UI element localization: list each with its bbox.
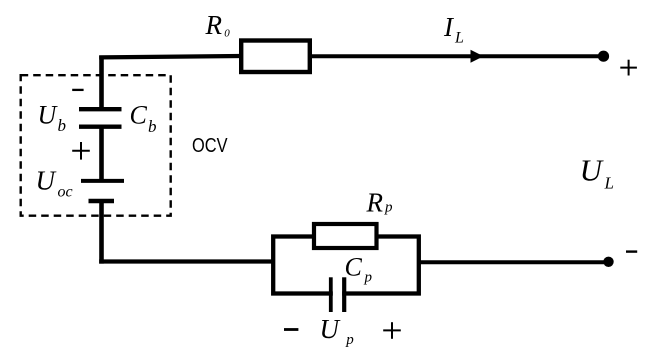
svg-text:p: p <box>345 332 354 348</box>
capacitor Cp <box>331 277 344 312</box>
svg-text:p: p <box>384 200 393 216</box>
svg-text:I: I <box>443 12 455 42</box>
label Uoc <box>36 166 73 201</box>
label IL <box>443 12 464 46</box>
label Up <box>320 314 355 348</box>
battery Uoc (short negative plate) <box>89 199 115 203</box>
label Cb <box>130 101 157 137</box>
label − above capacitor Cb <box>72 89 83 91</box>
label Rp <box>366 188 394 218</box>
label + at positive load terminal <box>620 60 637 76</box>
svg-text:OCV: OCV <box>192 135 228 157</box>
svg-text:U: U <box>36 166 57 196</box>
wire: riser from Cb top plate to top rail <box>99 56 104 111</box>
svg-text:R: R <box>366 188 384 218</box>
label − at negative load terminal <box>626 250 637 252</box>
wire: top rail from node to R0 left terminal <box>99 56 241 57</box>
svg-text:C: C <box>345 253 363 282</box>
svg-text:L: L <box>454 30 464 47</box>
svg-text:0: 0 <box>224 28 230 40</box>
label + between Cb and battery <box>72 142 90 160</box>
node: positive load terminal <box>598 51 609 62</box>
wire: RC block to negative load terminal <box>419 260 605 264</box>
resistor R0 <box>241 41 310 73</box>
label − at Up left <box>284 328 298 331</box>
wire: R0 right terminal to positive load terminal <box>312 54 603 58</box>
svg-text:b: b <box>148 117 157 136</box>
node: negative load terminal <box>603 257 613 267</box>
wire gap for capacitor Cp <box>333 287 342 300</box>
svg-text:p: p <box>364 269 373 285</box>
capacitor Cb <box>79 109 122 127</box>
battery Uoc (long positive plate) <box>81 179 124 183</box>
svg-text:R: R <box>205 10 223 40</box>
wire: bottom rail to RC block <box>99 259 273 263</box>
svg-text:L: L <box>604 174 614 193</box>
label Cp <box>345 253 373 286</box>
svg-text:C: C <box>130 101 148 130</box>
label + at Up right <box>383 322 401 339</box>
svg-text:U: U <box>38 100 59 129</box>
svg-text:b: b <box>58 116 67 135</box>
svg-text:U: U <box>320 314 341 344</box>
wire: RC parallel block outline <box>273 237 419 294</box>
current arrow IL <box>471 50 484 63</box>
label Ub <box>38 100 67 135</box>
dashed box: OCV battery group <box>21 75 171 216</box>
label R0 <box>205 10 231 40</box>
wire: battery negative down to bottom rail <box>99 203 104 264</box>
label UL <box>580 152 614 192</box>
svg-text:U: U <box>580 152 605 187</box>
resistor Rp <box>314 224 377 248</box>
wire: Cb bottom plate to battery Uoc <box>99 127 104 180</box>
svg-text:oc: oc <box>58 184 73 201</box>
